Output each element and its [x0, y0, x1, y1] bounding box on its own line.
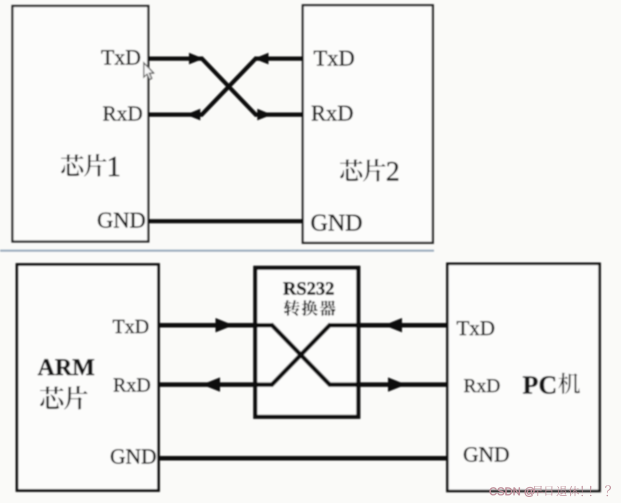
wire chip2 TxD horizontal segment [255, 56, 303, 60]
wire RS232 to PC RxD [329, 382, 447, 387]
arrowhead right into PC RxD [388, 377, 406, 391]
PC box PC机 [447, 264, 599, 491]
PC name label PC机 [523, 373, 580, 394]
pin label RxD (chip2) [312, 106, 326, 121]
pin label GND (PC) [464, 447, 478, 461]
wire diagonal chip1-TxD to chip2-RxD [201, 58, 257, 116]
pin label TxD (ARM) [113, 320, 125, 333]
separator line between diagrams [0, 250, 434, 252]
wire GND chip1 to chip2 [148, 219, 302, 223]
pin label GND (chip1) [98, 213, 113, 228]
chip2 name label 芯片2 [340, 159, 398, 182]
RS232 converter box [255, 268, 358, 417]
mouse cursor [144, 63, 154, 80]
ARM chip name label 芯片 [40, 386, 88, 410]
pin label RxD (PC) [464, 379, 476, 392]
arrowhead left on chip2 TxD [254, 53, 269, 65]
wire chip2 RxD horizontal segment [255, 112, 303, 116]
ARM chip name label ARM [38, 359, 55, 375]
chip1 name label 芯片1 [61, 154, 119, 177]
wire RS232 to ARM RxD [159, 382, 273, 387]
wire chip1 TxD horizontal segment [148, 56, 202, 60]
arrowhead left on PC TxD wire [384, 318, 402, 332]
wire diagonal ARM-TxD to PC-RxD inside RS232 [271, 324, 331, 385]
chip2 box 芯片2 [303, 5, 433, 243]
pin label GND (chip2) [311, 215, 327, 231]
RS232 converter label 转换器 [284, 300, 336, 316]
RS232 converter label RS232 [283, 282, 296, 294]
pin label TxD (chip1) [101, 50, 114, 64]
wire diagonal PC-TxD to ARM-RxD inside RS232 [271, 324, 331, 385]
arrowhead right into chip2 RxD [257, 109, 272, 121]
pin label TxD (PC) [457, 321, 469, 335]
watermark CSDN @早日退休！！？ [490, 485, 611, 496]
wire diagonal chip2-TxD to chip1-RxD [201, 58, 257, 116]
arrowhead left into ARM RxD [202, 377, 220, 391]
wire ARM TxD to RS232 [159, 323, 273, 328]
wire GND ARM to PC [159, 456, 448, 461]
wire PC TxD to RS232 [329, 323, 447, 328]
arrowhead right on chip1 TxD [189, 53, 204, 65]
ARM chip box [17, 265, 159, 491]
arrowhead left into chip1 RxD [186, 109, 201, 121]
pin label RxD (chip1) [103, 107, 117, 121]
pin label RxD (ARM) [114, 378, 127, 391]
wire chip1 RxD horizontal segment [148, 112, 202, 116]
pin label TxD (chip2) [314, 51, 327, 66]
chip1 box 芯片1 [13, 6, 149, 242]
pin label GND (ARM) [111, 449, 125, 463]
arrowhead right on ARM TxD wire [216, 318, 234, 332]
